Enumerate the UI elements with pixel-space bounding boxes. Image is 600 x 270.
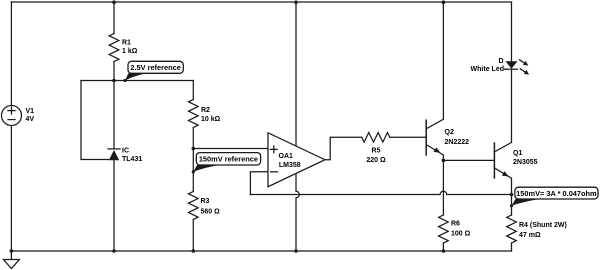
svg-text:R3: R3	[201, 198, 210, 205]
svg-text:10 kΩ: 10 kΩ	[201, 116, 221, 123]
svg-text:IC: IC	[122, 147, 129, 154]
svg-text:White Led: White Led	[471, 66, 504, 73]
svg-text:100 Ω: 100 Ω	[451, 231, 471, 238]
svg-text:R4 (Shunt 2W): R4 (Shunt 2W)	[519, 222, 567, 229]
svg-text:R1: R1	[122, 40, 131, 47]
svg-text:2N3055: 2N3055	[513, 159, 538, 166]
svg-text:1 kΩ: 1 kΩ	[122, 48, 138, 55]
svg-text:D: D	[498, 58, 503, 65]
svg-text:R6: R6	[451, 221, 460, 228]
svg-text:150mV= 3A * 0.047ohm: 150mV= 3A * 0.047ohm	[516, 189, 597, 198]
svg-text:R5: R5	[372, 148, 381, 155]
svg-text:4V: 4V	[26, 116, 35, 123]
svg-text:150mV reference: 150mV reference	[199, 155, 258, 164]
svg-text:R2: R2	[201, 107, 210, 114]
svg-text:2.5V reference: 2.5V reference	[130, 63, 181, 72]
svg-text:220 Ω: 220 Ω	[366, 157, 386, 164]
svg-text:560 Ω: 560 Ω	[201, 209, 221, 216]
svg-text:TL431: TL431	[122, 156, 142, 163]
svg-text:LM358: LM358	[279, 162, 301, 169]
svg-text:Q2: Q2	[445, 129, 454, 136]
svg-text:47 mΩ: 47 mΩ	[519, 232, 541, 239]
svg-text:2N2222: 2N2222	[445, 139, 470, 146]
svg-text:Q1: Q1	[513, 150, 522, 157]
svg-text:OA1: OA1	[279, 153, 294, 160]
svg-text:V1: V1	[26, 108, 35, 115]
